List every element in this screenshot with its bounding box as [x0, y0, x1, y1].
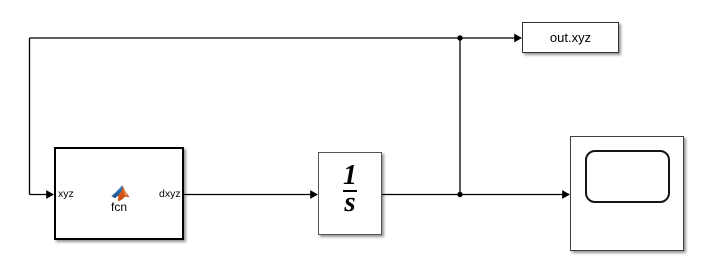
wire branch vertical	[459, 38, 461, 195]
wire fn output to integrator	[184, 194, 311, 196]
label 1/s numerator	[318, 163, 382, 189]
port label xyz	[58, 188, 74, 200]
port label dxyz	[159, 188, 181, 200]
wire feedback into fn input	[30, 194, 48, 196]
Integrator block 1/s	[318, 152, 382, 235]
label 1/s fraction bar	[343, 190, 356, 192]
MATLAB Function block U1 (fcn)	[54, 147, 184, 240]
wire feedback top	[30, 37, 461, 39]
scope screen	[585, 150, 670, 203]
arrowhead into integrator	[310, 190, 318, 199]
wire feedback left vertical	[29, 38, 31, 195]
junction dot upper	[457, 35, 462, 40]
arrowhead into scope	[562, 190, 570, 199]
junction dot lower	[457, 192, 462, 197]
arrowhead into fn block	[46, 190, 54, 199]
label 1/s denominator	[318, 189, 382, 215]
MATLAB logo icon	[111, 185, 129, 201]
Scope block	[570, 136, 684, 251]
label fcn	[108, 200, 130, 214]
wire to out.xyz	[460, 37, 515, 39]
arrowhead into out.xyz	[514, 34, 522, 43]
To-Workspace block out.xyz	[522, 22, 619, 53]
wire integrator output to scope	[382, 194, 563, 196]
